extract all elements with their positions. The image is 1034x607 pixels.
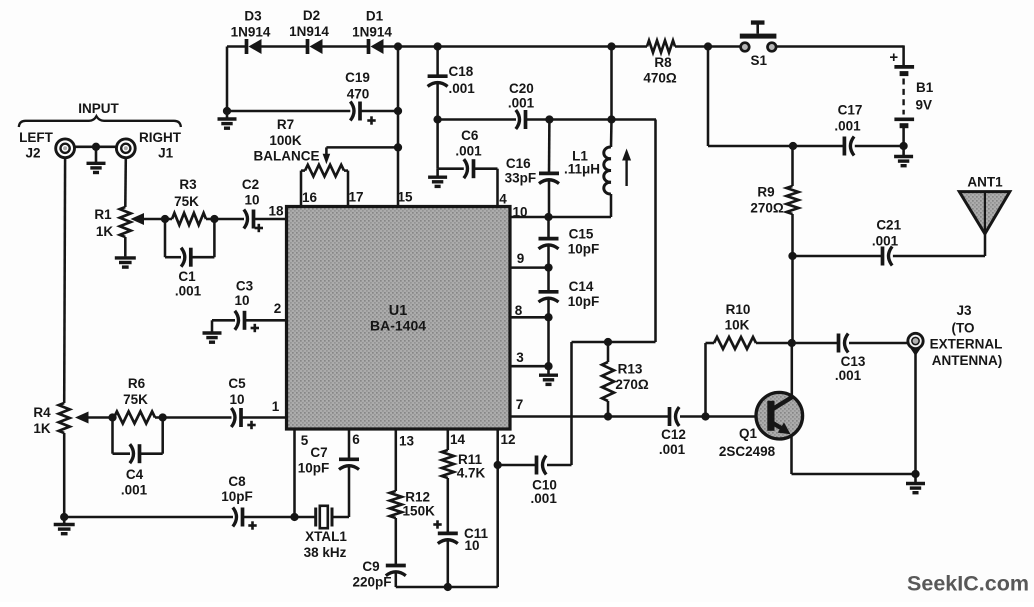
- resistor R9: [750, 146, 798, 256]
- svg-text:C5: C5: [228, 376, 246, 391]
- svg-text:D2: D2: [303, 8, 320, 23]
- junction: [544, 313, 552, 321]
- junction: [544, 263, 552, 271]
- capacitor C17: [834, 103, 862, 156]
- svg-text:75K: 75K: [174, 194, 199, 209]
- pin label 4: [499, 192, 507, 207]
- junction: [159, 413, 167, 421]
- pin label 13: [399, 434, 415, 449]
- wire: [214, 218, 244, 221]
- svg-text:XTAL1: XTAL1: [305, 529, 347, 544]
- svg-text:R6: R6: [128, 376, 146, 391]
- junction: [494, 461, 502, 469]
- resistor R10: [706, 302, 792, 349]
- jack J3: [906, 303, 1002, 368]
- svg-text:(TO: (TO: [952, 320, 975, 335]
- svg-text:1: 1: [272, 399, 280, 414]
- wire: [211, 320, 214, 333]
- capacitor C16: [505, 120, 559, 218]
- pin label 18: [268, 204, 284, 219]
- svg-text:10pF: 10pF: [221, 489, 253, 504]
- ground: [539, 366, 558, 384]
- wire: [64, 516, 233, 519]
- junction: [108, 413, 116, 421]
- svg-text:LEFT: LEFT: [19, 130, 53, 145]
- wire: [610, 47, 613, 120]
- svg-text:6: 6: [352, 432, 360, 447]
- resistor R11: [442, 429, 486, 480]
- pin label 9: [517, 251, 525, 266]
- wire: [570, 342, 573, 465]
- capacitor C3: [212, 278, 287, 332]
- wire: [849, 342, 907, 345]
- wire: [902, 45, 905, 67]
- junction: [60, 513, 68, 521]
- capacitor C21: [872, 218, 902, 266]
- IC U1: [287, 207, 511, 430]
- pin label 10: [512, 205, 527, 220]
- svg-text:C13: C13: [841, 354, 866, 369]
- pin label 16: [302, 190, 318, 205]
- junction: [788, 339, 796, 347]
- ground: [87, 147, 106, 173]
- svg-text:4.7K: 4.7K: [457, 465, 486, 480]
- svg-text:C3: C3: [236, 278, 254, 293]
- svg-text:4: 4: [499, 192, 507, 207]
- capacitor C15: [539, 217, 600, 268]
- svg-text:BALANCE: BALANCE: [254, 148, 320, 163]
- capacitor C9: [352, 518, 405, 589]
- ground: [894, 146, 913, 166]
- wire: [526, 118, 657, 121]
- wire: [498, 464, 537, 467]
- svg-text:D1: D1: [366, 9, 384, 24]
- antenna ANT1: [959, 175, 1010, 234]
- svg-text:C1: C1: [178, 269, 196, 284]
- junction: [788, 252, 796, 260]
- wire: [793, 255, 882, 258]
- svg-text:R1: R1: [94, 207, 112, 222]
- capacitor C8: [221, 474, 256, 530]
- resistor R6: [113, 376, 163, 424]
- wire: [510, 415, 668, 418]
- junction: [704, 42, 712, 50]
- svg-text:R3: R3: [179, 177, 197, 192]
- svg-text:17: 17: [348, 190, 363, 205]
- ground: [54, 517, 75, 534]
- diode D2: [289, 8, 329, 54]
- svg-text:9V: 9V: [916, 98, 933, 113]
- watermark: [907, 572, 1029, 596]
- svg-text:10: 10: [234, 293, 249, 308]
- junction: [394, 143, 402, 151]
- wire: [438, 167, 464, 170]
- potentiometer R4: [33, 403, 69, 517]
- svg-text:1N914: 1N914: [231, 25, 271, 40]
- junction: [544, 213, 552, 221]
- wire: [654, 120, 657, 343]
- svg-text:2SC2498: 2SC2498: [719, 444, 776, 459]
- pin label 6: [352, 432, 360, 447]
- svg-text:SeekIC.com: SeekIC.com: [907, 572, 1029, 596]
- svg-text:1K: 1K: [96, 224, 114, 239]
- wire: [438, 118, 516, 121]
- svg-text:B1: B1: [916, 80, 934, 95]
- svg-text:.001: .001: [834, 119, 861, 134]
- svg-text:1K: 1K: [33, 421, 51, 436]
- switch S1: [740, 20, 777, 67]
- wire: [295, 516, 316, 519]
- svg-text:220pF: 220pF: [352, 574, 391, 589]
- capacitor C19: [345, 70, 376, 125]
- svg-text:C12: C12: [661, 427, 686, 442]
- pin label 1: [272, 399, 280, 414]
- svg-text:5: 5: [301, 433, 309, 448]
- svg-text:C2: C2: [242, 177, 259, 192]
- junction: [210, 215, 218, 223]
- svg-text:BA-1404: BA-1404: [370, 318, 426, 334]
- svg-text:C7: C7: [310, 445, 327, 460]
- junction: [161, 215, 169, 223]
- wire: [243, 516, 295, 519]
- ground: [428, 169, 447, 187]
- wire: [510, 316, 549, 319]
- wire: [293, 429, 296, 517]
- capacitor C7: [298, 429, 359, 517]
- wire: [241, 416, 287, 419]
- svg-text:R7: R7: [277, 117, 294, 132]
- inductor L1: [564, 147, 611, 194]
- capacitor C10: [531, 456, 558, 507]
- junction: [92, 143, 100, 151]
- wire: [675, 45, 741, 48]
- svg-text:10: 10: [244, 192, 259, 207]
- svg-text:2: 2: [274, 301, 282, 316]
- label INPUT: [19, 101, 181, 127]
- wire: [384, 45, 648, 48]
- svg-text:10: 10: [464, 538, 479, 553]
- wire: [254, 218, 287, 221]
- svg-text:R12: R12: [405, 490, 430, 505]
- wire: [496, 169, 499, 207]
- svg-text:C20: C20: [509, 81, 534, 96]
- svg-text:470: 470: [347, 86, 370, 101]
- svg-text:.11μH: .11μH: [564, 161, 600, 176]
- jack J2: [19, 130, 74, 160]
- pin label 14: [450, 432, 466, 447]
- junction: [607, 42, 615, 50]
- junction: [545, 115, 553, 123]
- svg-text:C4: C4: [126, 467, 144, 482]
- wiper arrow: [131, 213, 166, 225]
- svg-text:1N914: 1N914: [352, 25, 392, 40]
- svg-text:C14: C14: [569, 279, 594, 294]
- potentiometer R1: [94, 207, 130, 257]
- svg-text:18: 18: [268, 204, 284, 219]
- svg-text:.001: .001: [659, 442, 686, 457]
- junction: [701, 412, 709, 420]
- pin label 17: [348, 190, 363, 205]
- junction: [911, 470, 919, 478]
- svg-text:.001: .001: [531, 491, 558, 506]
- junction: [789, 142, 797, 150]
- diode D3: [231, 9, 271, 55]
- resistor R12: [390, 429, 435, 518]
- svg-text:.001: .001: [872, 234, 899, 249]
- wire: [704, 343, 707, 417]
- junction: [899, 142, 907, 150]
- svg-text:D3: D3: [244, 9, 262, 24]
- wire: [547, 317, 550, 366]
- wire: [397, 47, 400, 207]
- resistor R13: [602, 342, 649, 417]
- svg-text:U1: U1: [389, 303, 408, 319]
- wire: [914, 350, 917, 474]
- svg-text:10: 10: [229, 392, 244, 407]
- svg-text:J3: J3: [956, 303, 972, 318]
- svg-text:3: 3: [516, 350, 524, 365]
- junction: [433, 42, 441, 50]
- pin label 3: [516, 350, 524, 365]
- svg-text:10pF: 10pF: [568, 294, 600, 309]
- wire: [360, 110, 398, 113]
- svg-text:12: 12: [500, 432, 515, 447]
- wiper arrow: [75, 412, 113, 424]
- jack J1: [116, 130, 181, 161]
- wire: [791, 256, 794, 343]
- svg-text:C16: C16: [506, 156, 531, 171]
- ground: [115, 256, 136, 267]
- capacitor C4: [113, 418, 163, 498]
- svg-text:150K: 150K: [403, 503, 436, 518]
- wire: [163, 416, 232, 419]
- svg-text:270Ω: 270Ω: [615, 377, 649, 392]
- svg-text:10K: 10K: [725, 317, 750, 332]
- svg-text:.001: .001: [121, 482, 148, 497]
- svg-text:Q1: Q1: [739, 426, 758, 441]
- wire: [902, 126, 905, 146]
- capacitor C2: [242, 177, 263, 232]
- wire: [610, 120, 613, 148]
- junction: [433, 115, 441, 123]
- svg-text:270Ω: 270Ω: [750, 200, 784, 215]
- wire: [227, 110, 350, 113]
- wire: [124, 158, 127, 207]
- capacitor C1: [165, 219, 214, 298]
- wire: [680, 415, 768, 418]
- pin label 5: [301, 433, 309, 448]
- wire: [708, 145, 844, 148]
- wire: [572, 341, 656, 344]
- wire: [791, 343, 794, 397]
- wire: [474, 167, 498, 170]
- wire: [610, 194, 613, 217]
- svg-text:+: +: [889, 49, 898, 66]
- svg-text:75K: 75K: [123, 392, 148, 407]
- wire: [547, 464, 572, 467]
- junction: [223, 107, 231, 115]
- svg-text:8: 8: [515, 303, 523, 318]
- capacitor C13: [792, 334, 866, 383]
- pin label 8: [515, 303, 523, 318]
- wire: [893, 255, 985, 258]
- svg-text:.001: .001: [175, 283, 202, 298]
- wire: [790, 435, 793, 474]
- wire: [984, 233, 987, 256]
- wire: [63, 158, 66, 403]
- battery B1: [889, 49, 933, 126]
- svg-text:100K: 100K: [269, 133, 302, 148]
- potentiometer R7: [254, 117, 399, 207]
- svg-text:15: 15: [397, 190, 413, 205]
- wire: [332, 516, 349, 519]
- resistor R3: [165, 177, 214, 225]
- svg-text:EXTERNAL: EXTERNAL: [930, 336, 1003, 351]
- wire: [707, 47, 710, 147]
- junction: [604, 412, 612, 420]
- svg-text:10: 10: [512, 205, 527, 220]
- svg-text:J2: J2: [25, 145, 40, 160]
- svg-text:.001: .001: [835, 368, 862, 383]
- capacitor C18: [428, 47, 476, 120]
- arrow (L1 adjust): [622, 149, 631, 187]
- svg-text:ANT1: ANT1: [967, 175, 1003, 190]
- junction: [394, 42, 402, 50]
- junction: [544, 362, 552, 370]
- svg-text:C15: C15: [569, 227, 594, 242]
- wire: [855, 145, 904, 148]
- svg-text:C6: C6: [461, 128, 479, 143]
- svg-text:C21: C21: [876, 218, 901, 233]
- capacitor C20: [508, 81, 535, 129]
- capacitor C5: [228, 376, 255, 429]
- wire: [436, 120, 439, 169]
- svg-text:R9: R9: [757, 184, 774, 199]
- capacitor C6: [455, 128, 482, 178]
- svg-text:R13: R13: [618, 361, 643, 376]
- svg-text:1N914: 1N914: [289, 24, 329, 39]
- svg-text:C17: C17: [838, 103, 863, 118]
- svg-text:RIGHT: RIGHT: [139, 130, 182, 145]
- svg-text:J1: J1: [158, 145, 174, 160]
- wire: [510, 266, 549, 269]
- wire: [496, 429, 499, 587]
- crystal XTAL1: [304, 506, 348, 560]
- svg-text:9: 9: [517, 251, 525, 266]
- capacitor C14: [539, 268, 600, 318]
- wire: [227, 45, 247, 48]
- wire: [226, 47, 229, 112]
- wire: [323, 45, 369, 48]
- svg-text:R10: R10: [726, 302, 751, 317]
- junction: [290, 513, 298, 521]
- junction: [394, 107, 402, 115]
- transistor Q1: [719, 392, 803, 458]
- svg-text:C9: C9: [362, 559, 379, 574]
- wire: [510, 216, 611, 219]
- svg-text:10pF: 10pF: [568, 242, 600, 257]
- wire: [75, 146, 116, 149]
- svg-text:.001: .001: [449, 81, 476, 96]
- svg-text:ANTENNA): ANTENNA): [932, 353, 1003, 368]
- pin label 15: [397, 190, 413, 205]
- wire: [776, 45, 903, 48]
- wire: [396, 586, 498, 589]
- svg-text:16: 16: [302, 190, 318, 205]
- junction: [444, 583, 452, 591]
- junction: [604, 338, 612, 346]
- capacitor C12: [659, 407, 686, 457]
- capacitor C11: [433, 478, 488, 587]
- diode D1: [352, 9, 392, 55]
- svg-text:C18: C18: [449, 64, 474, 79]
- svg-text:INPUT: INPUT: [78, 101, 119, 116]
- junction: [607, 115, 615, 123]
- svg-text:R8: R8: [654, 55, 672, 70]
- svg-text:.001: .001: [508, 96, 535, 111]
- svg-text:14: 14: [450, 432, 466, 447]
- svg-text:C8: C8: [228, 474, 246, 489]
- svg-text:.001: .001: [455, 143, 482, 158]
- ground: [218, 111, 237, 128]
- svg-text:R4: R4: [33, 405, 51, 420]
- resistor R8: [643, 41, 677, 86]
- pin label 7: [516, 397, 524, 412]
- wire: [792, 473, 916, 476]
- svg-text:S1: S1: [751, 53, 768, 68]
- pin label 2: [274, 301, 282, 316]
- svg-text:7: 7: [516, 397, 524, 412]
- svg-text:33pF: 33pF: [505, 171, 537, 186]
- svg-text:C19: C19: [345, 70, 370, 85]
- wire: [262, 45, 308, 48]
- wire: [510, 365, 549, 368]
- pin label 12: [500, 432, 515, 447]
- svg-text:13: 13: [399, 434, 415, 449]
- svg-text:10pF: 10pF: [298, 460, 330, 475]
- svg-text:470Ω: 470Ω: [643, 70, 677, 85]
- ground: [203, 333, 222, 342]
- svg-text:38 kHz: 38 kHz: [304, 545, 347, 560]
- ground: [906, 474, 925, 493]
